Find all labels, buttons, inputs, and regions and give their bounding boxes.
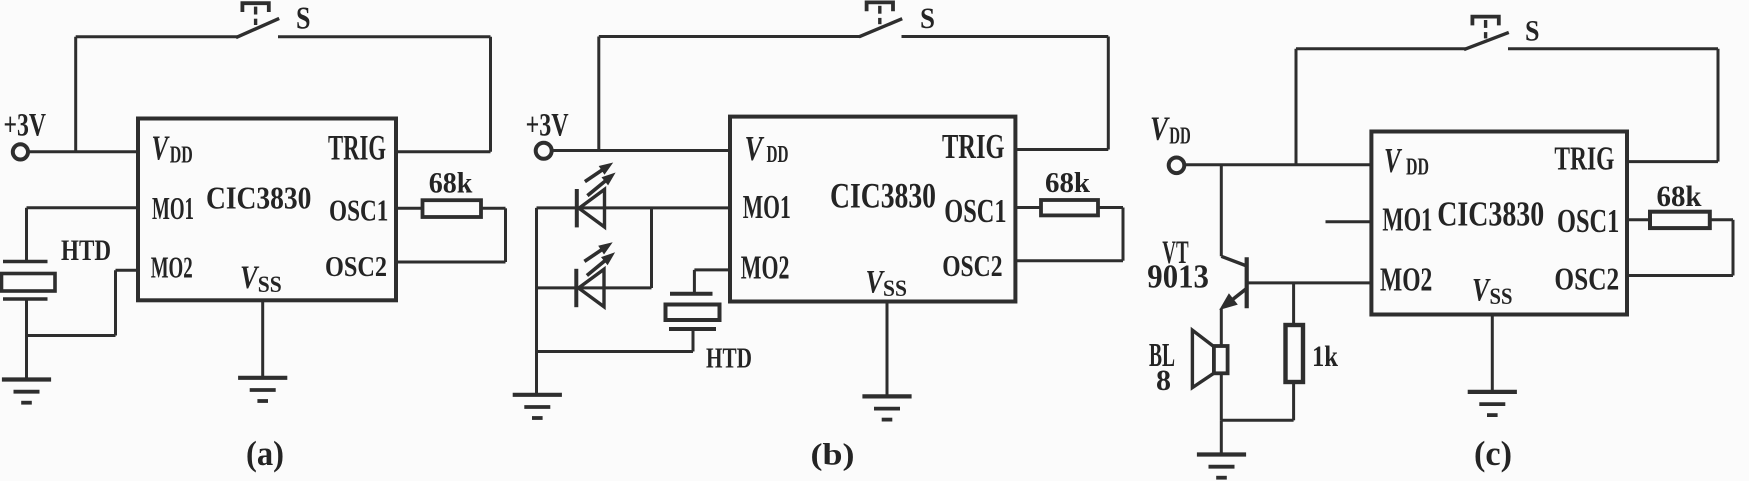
- svg-text:DD: DD: [1406, 155, 1429, 181]
- svg-text:OSC1: OSC1: [329, 193, 388, 228]
- svg-text:HTD: HTD: [706, 343, 752, 374]
- svg-text:MO1: MO1: [152, 190, 194, 226]
- svg-text:68k: 68k: [429, 166, 473, 199]
- svg-text:V: V: [1150, 110, 1170, 147]
- svg-text:1k: 1k: [1312, 340, 1338, 373]
- svg-text:V: V: [745, 129, 765, 168]
- svg-text:MO1: MO1: [1382, 202, 1432, 239]
- svg-text:(b): (b): [811, 437, 855, 472]
- svg-text:TRIG: TRIG: [328, 127, 386, 167]
- svg-text:SS: SS: [1490, 284, 1513, 309]
- svg-text:68k: 68k: [1657, 180, 1702, 213]
- svg-text:TRIG: TRIG: [1554, 141, 1614, 178]
- svg-text:TRIG: TRIG: [942, 127, 1005, 166]
- svg-text:DD: DD: [1169, 124, 1191, 150]
- svg-text:OSC1: OSC1: [1557, 203, 1619, 240]
- svg-text:SS: SS: [883, 276, 907, 301]
- svg-text:HTD: HTD: [61, 234, 111, 267]
- svg-text:OSC1: OSC1: [944, 193, 1006, 230]
- svg-text:V: V: [1472, 272, 1491, 308]
- svg-text:8: 8: [1156, 364, 1171, 397]
- svg-text:CIC3830: CIC3830: [830, 176, 936, 216]
- svg-text:S: S: [920, 2, 935, 35]
- svg-text:V: V: [152, 128, 170, 167]
- svg-text:SS: SS: [258, 272, 282, 297]
- svg-text:CIC3830: CIC3830: [206, 179, 311, 215]
- svg-text:MO2: MO2: [1380, 261, 1432, 298]
- svg-text:(c): (c): [1474, 434, 1512, 473]
- svg-text:(a): (a): [246, 434, 284, 473]
- svg-text:OSC2: OSC2: [325, 251, 387, 283]
- svg-text:S: S: [296, 0, 311, 36]
- svg-text:MO2: MO2: [151, 249, 193, 284]
- svg-text:DD: DD: [170, 143, 193, 169]
- svg-text:V: V: [1384, 141, 1402, 180]
- svg-text:MO1: MO1: [743, 189, 791, 226]
- svg-text:68k: 68k: [1045, 167, 1091, 199]
- svg-text:DD: DD: [767, 142, 789, 168]
- svg-text:CIC3830: CIC3830: [1437, 195, 1544, 234]
- svg-text:+3V: +3V: [526, 107, 569, 143]
- svg-text:OSC2: OSC2: [1554, 260, 1619, 296]
- svg-text:OSC2: OSC2: [942, 248, 1002, 283]
- svg-text:MO2: MO2: [741, 249, 790, 286]
- svg-text:+3V: +3V: [4, 108, 47, 144]
- svg-text:9013: 9013: [1147, 258, 1209, 295]
- svg-text:S: S: [1525, 15, 1540, 48]
